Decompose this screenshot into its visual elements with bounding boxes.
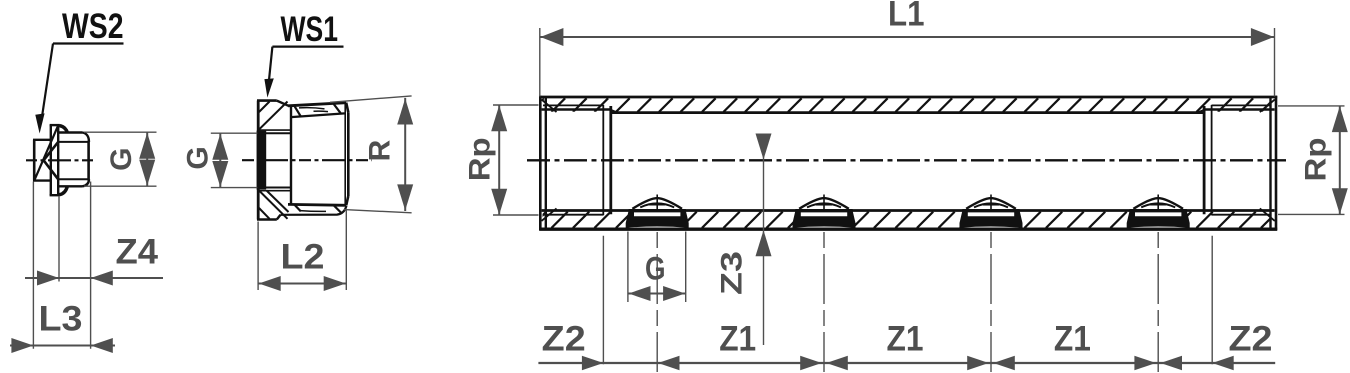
- leader WS2: [53, 42, 124, 44]
- dimension Z4: [25, 277, 163, 279]
- chain arrows: [582, 356, 604, 370]
- leader WS1: [272, 45, 343, 47]
- manifold outer top edge: [539, 96, 1277, 99]
- manifold left end face: [539, 96, 542, 231]
- manifold left face chamfers: [542, 100, 557, 113]
- bottom dimension chain: [538, 362, 1275, 364]
- svg-text:G: G: [182, 146, 215, 169]
- dimension R: [330, 96, 412, 102]
- dimension G (port 1): [627, 232, 629, 303]
- fitting WS1 hex left edge: [290, 106, 292, 205]
- fitting WS1 chamfer hatch bottom: [259, 191, 288, 219]
- plug WS2 thread: [58, 131, 82, 133]
- svg-text:Z1: Z1: [887, 320, 924, 359]
- dimension G (fitting WS1): [211, 132, 257, 134]
- dimension L2: [257, 222, 259, 291]
- svg-text:Rp: Rp: [1300, 138, 1333, 182]
- manifold thread end steps: [602, 105, 604, 215]
- dimension Rp right: [1278, 105, 1345, 107]
- svg-text:G: G: [105, 148, 138, 171]
- svg-text:Z2: Z2: [542, 320, 586, 359]
- port 2 axis: [823, 195, 825, 212]
- svg-text:Z4: Z4: [116, 233, 159, 272]
- dimension L3: [10, 345, 115, 347]
- outlet port 2: [795, 212, 852, 227]
- plug WS2 junction chamfer arcs: [59, 126, 67, 133]
- plug WS2 hex head: [33, 140, 36, 181]
- dimension Z3: [763, 136, 765, 345]
- plug WS2 head chamfer diagonal: [34, 126, 58, 180]
- manifold centre line: [527, 159, 1286, 161]
- svg-text:L2: L2: [281, 238, 325, 277]
- fitting WS1 hex bottom: [288, 203, 346, 207]
- plug WS2 cone: [44, 142, 59, 160]
- svg-text:L1: L1: [888, 0, 925, 34]
- dimension Rp left: [493, 104, 539, 106]
- port 3 axis: [990, 195, 992, 212]
- svg-text:L3: L3: [39, 300, 83, 339]
- svg-text:Z1: Z1: [1054, 320, 1091, 359]
- manifold outer bottom edge: [539, 228, 1277, 231]
- svg-text:R: R: [364, 139, 397, 161]
- manifold right face chamfers: [1260, 100, 1275, 113]
- plug WS2 centre line: [26, 159, 96, 161]
- manifold bore lines: [543, 104, 603, 106]
- plug WS2 collar washer: [50, 125, 52, 195]
- outlet port 1: [629, 212, 686, 227]
- fitting WS1 hex right face: [346, 103, 348, 113]
- svg-text:Z2: Z2: [1229, 320, 1273, 359]
- fitting WS1 chamfer hatch top: [259, 102, 288, 130]
- manifold right end face: [1275, 96, 1278, 231]
- fitting WS1 centre line: [242, 159, 372, 161]
- fitting WS1 thread bore: [257, 131, 267, 190]
- svg-text:Rp: Rp: [464, 137, 497, 181]
- svg-text:WS1: WS1: [281, 10, 339, 49]
- port 4 axis: [1157, 195, 1159, 212]
- svg-text:G: G: [645, 251, 666, 287]
- dimension G (plug): [84, 131, 157, 133]
- outlet port 4: [1130, 212, 1187, 227]
- outlet port 3: [962, 212, 1019, 227]
- fitting WS1 body outline: [257, 101, 260, 220]
- fitting WS1 hex top: [288, 103, 346, 106]
- svg-text:Z1: Z1: [719, 320, 756, 359]
- port 1 axis: [656, 195, 658, 212]
- svg-text:Z3: Z3: [716, 251, 749, 295]
- svg-text:WS2: WS2: [62, 7, 124, 46]
- dimension L1: [539, 28, 541, 97]
